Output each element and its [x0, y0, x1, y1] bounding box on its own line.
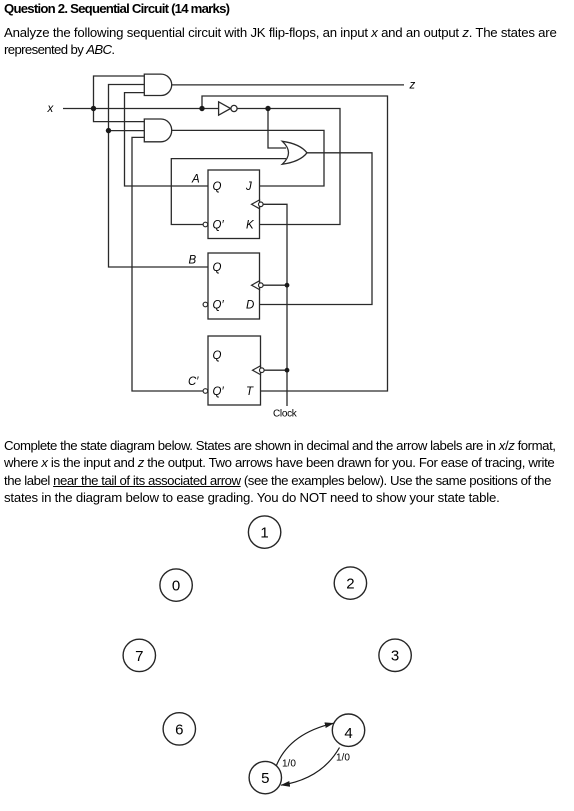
svg-text:Q: Q [213, 262, 222, 274]
svg-text:5: 5 [261, 770, 269, 787]
svg-text:C′: C′ [188, 376, 199, 388]
svg-text:1/0: 1/0 [282, 759, 296, 770]
svg-text:1: 1 [260, 525, 268, 542]
svg-text:Clock: Clock [273, 409, 298, 420]
svg-text:Q: Q [213, 181, 222, 193]
svg-text:Q: Q [213, 350, 222, 362]
svg-text:Q′: Q′ [213, 386, 225, 398]
svg-text:Q′: Q′ [213, 299, 225, 311]
svg-text:z: z [409, 80, 416, 92]
svg-text:x: x [47, 103, 55, 115]
svg-text:J: J [245, 181, 252, 193]
svg-text:2: 2 [346, 576, 354, 593]
svg-text:Q′: Q′ [213, 219, 225, 231]
svg-text:D: D [246, 299, 254, 311]
svg-text:K: K [246, 219, 255, 231]
svg-text:3: 3 [391, 648, 399, 665]
svg-text:1/0: 1/0 [336, 753, 350, 764]
svg-text:A: A [191, 174, 200, 186]
svg-text:4: 4 [344, 725, 352, 742]
svg-text:T: T [246, 386, 254, 398]
svg-text:6: 6 [175, 721, 183, 738]
svg-text:B: B [189, 254, 197, 266]
svg-text:7: 7 [135, 648, 143, 665]
svg-text:0: 0 [172, 578, 180, 595]
